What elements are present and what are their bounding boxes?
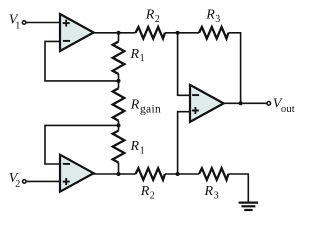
terminal V2 bbox=[23, 180, 27, 184]
label R1 top bbox=[130, 47, 145, 64]
wire U2 - input feedback to node B bbox=[45, 125, 119, 164]
node junction top R2 left bbox=[117, 31, 121, 35]
svg-text:1: 1 bbox=[140, 53, 145, 64]
wire bottom rail between R2 and R3 bbox=[165, 173, 199, 175]
svg-text:R: R bbox=[204, 184, 214, 199]
wire R3 to output node bbox=[228, 33, 240, 104]
svg-text:3: 3 bbox=[215, 14, 220, 25]
op-amp U1 bbox=[60, 14, 94, 51]
svg-text:1: 1 bbox=[140, 146, 145, 157]
wire U1 - input feedback to node A bbox=[45, 41, 119, 81]
node junction top R3 left bbox=[176, 31, 180, 35]
resistor R1 top bbox=[113, 42, 125, 75]
label R1 bottom bbox=[130, 139, 145, 156]
node junction bottom R2 left bbox=[117, 172, 121, 176]
node junction bottom R3 left bbox=[176, 172, 180, 176]
svg-text:R: R bbox=[130, 98, 140, 113]
svg-text:out: out bbox=[281, 104, 295, 115]
wire V2 to U2 + input bbox=[26, 180, 60, 182]
op-amp U3 bbox=[190, 85, 224, 122]
wire R chain between Rgain and R1 bbox=[118, 121, 120, 131]
label Rgain bbox=[130, 98, 161, 116]
resistor R2 top bbox=[136, 27, 165, 39]
wire U3 output to Vout bbox=[223, 102, 267, 104]
svg-text:2: 2 bbox=[155, 14, 160, 25]
resistor R3 top bbox=[199, 27, 228, 39]
node output junction bbox=[239, 101, 243, 105]
svg-text:R: R bbox=[130, 47, 140, 62]
svg-text:R: R bbox=[205, 8, 215, 23]
svg-text:1: 1 bbox=[15, 20, 20, 31]
wire U1 output to top rail bbox=[93, 32, 136, 34]
resistor R1 bottom bbox=[113, 131, 125, 163]
wire R chain bottom lead bbox=[118, 163, 120, 174]
label V1 bbox=[9, 12, 20, 31]
op-amp U2 bbox=[60, 155, 94, 192]
node A junction R1/Rgain bbox=[117, 79, 121, 83]
label R2 top bbox=[145, 8, 160, 25]
wire bottom R3 to ground bbox=[228, 174, 248, 202]
svg-text:2: 2 bbox=[15, 179, 20, 190]
svg-text:R: R bbox=[130, 139, 140, 154]
wire U2 output to bottom rail bbox=[93, 173, 136, 175]
svg-text:3: 3 bbox=[214, 191, 219, 202]
svg-text:2: 2 bbox=[150, 191, 155, 202]
label R3 bottom bbox=[204, 184, 219, 201]
label R2 bottom bbox=[140, 184, 155, 201]
wire R chain between R1 and Rgain bbox=[118, 74, 120, 88]
ground bbox=[239, 203, 259, 210]
wire R chain top lead bbox=[118, 33, 120, 42]
terminal V1 bbox=[22, 21, 26, 25]
wire V1 to U1 + input bbox=[26, 22, 60, 24]
wire top node to U3 - input bbox=[178, 33, 190, 96]
svg-text:R: R bbox=[140, 184, 150, 199]
resistor Rgain bbox=[113, 88, 125, 121]
node B junction Rgain/R1 bbox=[117, 123, 121, 127]
wire bottom node to U3 + input bbox=[178, 112, 190, 174]
resistor R2 bottom bbox=[136, 168, 165, 180]
svg-text:gain: gain bbox=[140, 103, 161, 115]
wire top rail between R2 and R3 bbox=[165, 32, 199, 34]
label V2 bbox=[9, 171, 20, 190]
label R3 top bbox=[205, 8, 220, 25]
svg-text:R: R bbox=[145, 8, 155, 23]
terminal Vout bbox=[267, 102, 271, 106]
label Vout bbox=[273, 97, 295, 115]
resistor R3 bottom bbox=[199, 168, 228, 180]
